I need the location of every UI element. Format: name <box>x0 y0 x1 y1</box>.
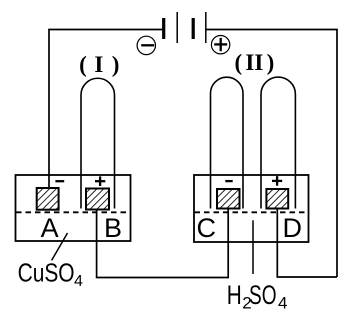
battery B1: plate short thick (negative, left) <box>162 18 165 39</box>
battery B2: plate long thin (positive, right) <box>205 12 207 43</box>
plus sign above electrode B <box>95 176 105 186</box>
label ( I ) cell one <box>79 52 119 77</box>
svg-text:H: H <box>227 280 242 310</box>
svg-text:D: D <box>282 213 302 243</box>
beaker II (H2SO4 cell) <box>194 175 309 242</box>
wire: top-left from battery negative plate, down left side to electrode A <box>49 30 163 189</box>
gas collection tube over electrode C <box>211 77 244 208</box>
svg-text:A: A <box>41 213 59 243</box>
positive terminal symbol (plus in circle) <box>211 36 229 54</box>
electrode A (hatched) <box>37 188 59 210</box>
leader line from CuSO4 label into beaker I <box>52 233 68 260</box>
svg-text:SO: SO <box>249 280 277 310</box>
wire: electrode D down and right to right-side wire <box>277 209 337 278</box>
svg-text:B: B <box>104 213 122 243</box>
svg-text:C: C <box>196 213 216 243</box>
negative terminal symbol (minus in circle) <box>137 36 155 54</box>
liquid level dashed line in beaker I <box>16 211 130 213</box>
svg-text:(: ( <box>234 50 242 75</box>
svg-text:): ) <box>112 52 120 77</box>
battery B2: plate short thick <box>192 18 195 39</box>
svg-text:I: I <box>245 50 254 75</box>
svg-text:4: 4 <box>74 273 83 290</box>
svg-text:4: 4 <box>278 294 287 312</box>
battery B1: plate long thin <box>176 12 178 43</box>
gas collection tube over electrode B <box>81 78 115 208</box>
liquid level dashed line in beaker II <box>195 211 309 213</box>
wire: electrode B down, along bottom, up to electrode C <box>97 209 229 278</box>
svg-text:I: I <box>94 52 103 77</box>
label CuSO4 <box>18 257 83 289</box>
electrode B (hatched) <box>86 189 109 210</box>
label H2SO4 <box>227 280 288 312</box>
beaker I (CuSO4 cell) <box>16 175 131 241</box>
svg-text:CuSO: CuSO <box>18 257 75 287</box>
plus sign above electrode D <box>272 176 282 186</box>
electrode C (hatched) <box>217 189 240 209</box>
svg-text:(: ( <box>79 52 87 77</box>
leader line from H2SO4 label into beaker II <box>252 220 254 274</box>
svg-text:): ) <box>267 50 275 75</box>
electrode D (hatched) <box>266 189 288 209</box>
svg-text:I: I <box>254 50 263 75</box>
minus sign above electrode C <box>225 180 232 182</box>
minus sign above electrode A <box>55 180 64 182</box>
label (II) cell two <box>234 50 274 75</box>
wire: top-right from battery positive, down right side <box>206 30 337 278</box>
gas collection tube over electrode D <box>261 77 295 208</box>
